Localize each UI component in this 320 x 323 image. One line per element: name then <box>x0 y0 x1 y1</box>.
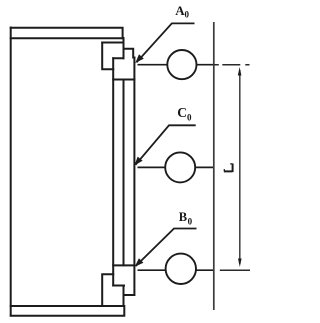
svg-text:0: 0 <box>185 9 190 19</box>
svg-text:C: C <box>177 105 187 120</box>
svg-text:0: 0 <box>188 217 193 227</box>
svg-text:0: 0 <box>187 113 192 123</box>
svg-text:B: B <box>179 210 187 224</box>
